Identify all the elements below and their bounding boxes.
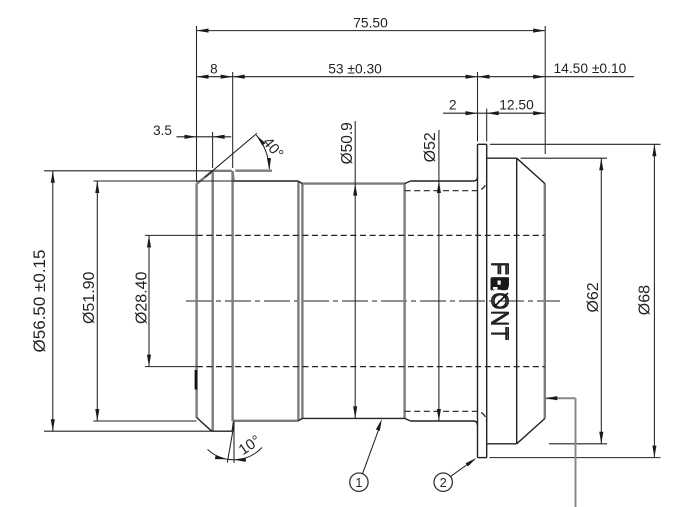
svg-text:Ø62: Ø62 — [585, 282, 602, 312]
FRONT label — [486, 261, 514, 340]
step edge x=298.4 — [297, 181, 299, 421]
dia56.50 ext bottom — [44, 430, 212, 432]
dia62 ext bottom — [549, 443, 607, 445]
svg-text:1: 1 — [355, 476, 362, 490]
53 arrows — [233, 75, 245, 79]
big end tangent edge x=516.7 — [516, 158, 518, 444]
step edge x=302.4 — [301, 184, 303, 419]
dia28.40 arrows — [147, 235, 151, 247]
svg-text:Ø56.50 ±0.15: Ø56.50 ±0.15 — [30, 250, 49, 353]
bore top (dia 28.40) — [197, 234, 545, 236]
dia68 arrows — [652, 144, 656, 156]
svg-text:Ø52: Ø52 — [422, 132, 439, 162]
svg-text:Ø28.40: Ø28.40 — [133, 271, 150, 324]
10deg wall bottom — [232, 421, 233, 431]
40deg arc arrows — [255, 134, 266, 146]
step rise top — [405, 181, 411, 184]
dim line 75.50 — [197, 30, 546, 32]
svg-text:53 ±0.30: 53 ±0.30 — [328, 61, 382, 76]
dia68 dim line — [653, 144, 655, 457]
40deg arc — [256, 135, 269, 169]
dia51.90 arrows — [95, 181, 99, 193]
svg-text:14.50 ±0.10: 14.50 ±0.10 — [554, 61, 627, 76]
big end chamfer bottom — [517, 419, 545, 444]
black dash mark on left face — [195, 370, 198, 390]
dia52 top edge with fillet into flange — [411, 177, 478, 181]
dia62 dim line — [600, 158, 602, 444]
svg-text:75.50: 75.50 — [353, 15, 388, 30]
body top chamfer — [298, 181, 303, 184]
75.50 arrows — [197, 29, 209, 33]
dia56.50 dim line — [52, 171, 54, 431]
mid section bottom edge (dia 50.9) — [302, 417, 404, 419]
hidden lines dashed — [197, 181, 545, 422]
svg-text:2: 2 — [440, 476, 447, 490]
dia68 ext bottom — [490, 457, 661, 459]
body bottom chamfer — [298, 418, 303, 421]
ext line x545.2 — [544, 26, 546, 154]
overlapped mark on R of FRONT — [491, 278, 509, 289]
right bore top hidden — [405, 181, 487, 191]
10deg arc — [208, 448, 263, 460]
part group: black edges — [197, 144, 545, 457]
mid section top edge (dia 50.9) — [302, 182, 404, 184]
ext line x486.7 — [486, 109, 488, 142]
svg-text:8: 8 — [210, 62, 218, 77]
dia28.40 ext bottom — [145, 366, 196, 368]
balloon 2 — [434, 456, 478, 491]
svg-text:FRONT: FRONT — [488, 261, 514, 340]
centerline — [186, 300, 560, 302]
svg-text:Ø50.9: Ø50.9 — [339, 122, 356, 164]
dim line 2 / 12.50 — [443, 112, 545, 114]
balloon 1 — [350, 418, 384, 491]
step rise bottom — [405, 418, 411, 421]
flange left face — [477, 144, 479, 457]
flange bottom edge — [478, 457, 487, 459]
10deg tilted ref line — [227, 425, 234, 463]
dia68 ext top — [490, 143, 661, 145]
flange right face — [486, 144, 488, 457]
dia51.90 ext bottom — [93, 420, 196, 422]
dia28.40 dim line — [148, 235, 150, 366]
right end face x=544.8 — [544, 184, 546, 419]
part group: grey thick visible edges — [197, 171, 545, 431]
big end top edge (dia62) — [487, 157, 517, 159]
40deg reference line horizontal — [235, 169, 272, 171]
bore bottom — [197, 366, 545, 368]
leader to right face (cropped callout) — [545, 396, 575, 507]
2 arrow — [466, 111, 478, 115]
chamfer 40 top-left — [197, 171, 213, 184]
collar tangent edge x=212.7 — [211, 171, 213, 431]
svg-text:Ø51.90: Ø51.90 — [81, 271, 98, 324]
big end bottom edge — [487, 443, 517, 445]
ext line x196.5 — [196, 26, 198, 182]
dia62 arrows — [599, 158, 603, 170]
body top edge (dia 51.90) — [234, 180, 298, 182]
step edge x=404.6 — [403, 184, 405, 419]
svg-text:2: 2 — [449, 98, 457, 113]
slash through O of FRONT — [494, 293, 508, 307]
body bottom edge (dia 51.90) — [234, 420, 298, 422]
10deg wall top — [232, 171, 233, 181]
collar end edge x=232.6 — [231, 172, 233, 422]
dim line 8 / 53 / 14.50 — [197, 76, 635, 78]
ext line x212.6 — [212, 132, 214, 168]
dim line 3.5 — [177, 136, 232, 138]
dia52 dim line — [438, 130, 440, 421]
dia50.9 dim line — [354, 121, 356, 418]
ext line x232.7 — [232, 72, 234, 168]
svg-text:3.5: 3.5 — [153, 123, 172, 138]
chamfer bottom-left — [197, 418, 212, 432]
10deg vertical ref line — [233, 422, 235, 464]
3.5 arrows — [185, 135, 197, 139]
12.50 arrows — [487, 111, 499, 115]
14.50 arrows — [478, 75, 490, 79]
dia56.50 arrows — [51, 171, 55, 183]
big end chamfer top — [517, 158, 545, 183]
40deg chamfer extension line — [205, 133, 257, 177]
dia50.9 arrows — [353, 184, 357, 196]
right bore bottom hidden — [405, 411, 487, 421]
collar top edge — [213, 170, 232, 172]
dia62 ext top — [521, 157, 608, 159]
dia52 arrows — [437, 181, 441, 193]
dia51.90 ext top — [94, 180, 234, 182]
dia56.50 ext top — [44, 170, 214, 172]
10deg arc arrows — [215, 455, 228, 461]
dimension lines and extension lines — [44, 26, 661, 463]
dia52 bottom edge with fillet into flange — [411, 421, 478, 425]
svg-text:12.50: 12.50 — [499, 98, 534, 113]
svg-text:Ø68: Ø68 — [637, 285, 654, 315]
dia28.40 ext top — [145, 234, 196, 236]
dia51.90 dim line — [96, 181, 98, 421]
flange top edge — [478, 143, 487, 145]
8 arrows — [197, 75, 209, 79]
ext line x477.5 — [477, 72, 479, 141]
left face — [195, 184, 197, 419]
arrowheads — [51, 29, 657, 462]
collar bottom edge — [212, 430, 233, 432]
